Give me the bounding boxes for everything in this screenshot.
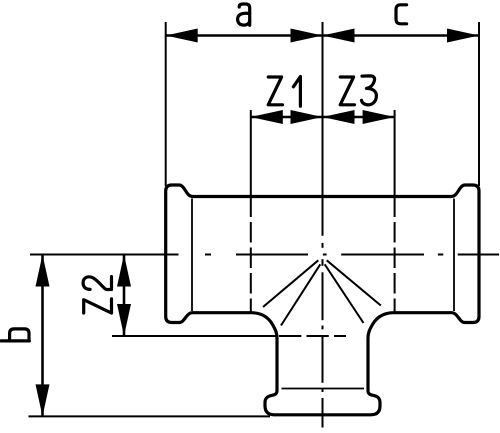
tee body: right press bead [452,185,480,323]
arrowheads [36,29,480,417]
tee body: bottom wall left of branch [193,311,253,314]
tee body: top wall [193,195,452,198]
label c [396,5,407,24]
extension line Z2 bottom at y=336 [112,335,277,337]
arrow Z1 left [251,110,283,124]
vertical centerline dash-dot x=322.5 [322,22,324,428]
spider line left 1 [263,260,318,307]
extension line right (dim c) at x=479 [478,22,480,186]
socket depth line left x=192 [191,199,193,312]
tee body: left press bead [166,185,193,323]
dimension line Z2 at x=124 [123,255,126,337]
extension line Z3 right at x=394.6 [394,110,396,197]
horizontal centerline dash-dot y=254.5 [205,254,499,256]
label Z2 (rotated) [83,277,111,314]
arrow Z3 right [363,110,395,124]
spider line right 1 [327,260,381,305]
hidden dashed line right socket stop x=394.6 [394,197,396,312]
arrow a left [166,29,198,43]
arrow Z3 left [323,110,355,124]
socket depth line right x=454 [453,199,455,312]
arrow a right [291,29,323,43]
extension line Z1 left at x=250.8 [250,110,252,197]
arrow b up [36,255,50,287]
socket depth line branch y=388.5 [282,388,365,390]
extension line left (dim a) at x=165.7 [165,22,167,186]
hidden dashed line branch stop y=336 [279,335,346,337]
dimension line Z1-Z3 at y=117 [251,116,395,119]
arrow c left [323,29,355,43]
label Z1 [268,77,300,107]
arrow c right [447,29,479,43]
label a [238,4,250,25]
arrow Z2 up [117,255,131,287]
arrow b down [36,384,50,416]
label b (rotated) [1,329,29,341]
dimension line b at x=42.5 [41,255,44,417]
extension line bottom for b at y=416.4 [29,415,271,417]
extension line centerline-left for b/Z2 at y=254.5 [30,254,179,256]
branch outlet with press bead [252,313,393,415]
dimension line a-c at y=35.5 [166,34,479,37]
spider line left 2 [281,264,320,325]
spider line right 2 [325,264,364,323]
arrow Z2 down [117,304,131,336]
arrow Z1 right [291,110,323,124]
label Z3 [340,76,376,105]
tee body: bottom wall right of branch [393,311,452,314]
hidden dashed line left socket stop x=250.8 [250,197,252,312]
